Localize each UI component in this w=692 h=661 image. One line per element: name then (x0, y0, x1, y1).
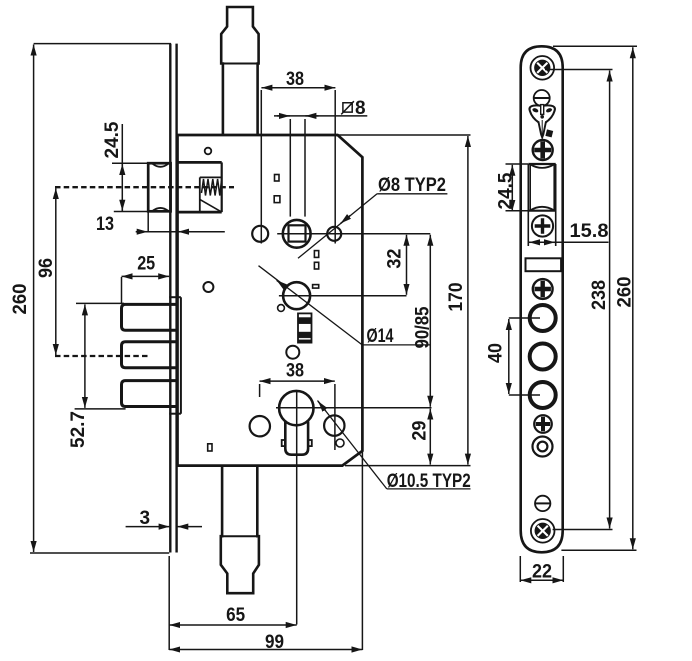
svg-text:260: 260 (10, 284, 31, 315)
faceplate slot rectangle (526, 258, 562, 271)
dashed centerline latch (55, 186, 234, 188)
extension line top of faceplate (34, 43, 171, 45)
label O14 leader arrow (277, 280, 287, 288)
dimension 38 bottom line (260, 380, 335, 382)
faceplate (left view, side) back line (175, 44, 177, 553)
extension line cutout bottom (506, 210, 529, 212)
cam circle O14 (283, 282, 310, 309)
svg-text:32: 32 (385, 249, 406, 269)
deadbolt bolt 1 (122, 304, 178, 330)
dimension 170 line (467, 136, 469, 465)
cam centerline (279, 295, 407, 297)
hole pin rect b (274, 196, 280, 203)
faceplate front outline (521, 46, 563, 552)
svg-text:90/85: 90/85 (413, 306, 434, 348)
rivet circle middle (203, 282, 213, 292)
dimension 15.8 line (528, 241, 609, 243)
extension line plate top (553, 45, 637, 47)
label O10.5 underline (387, 488, 471, 490)
latch front top arc (530, 164, 554, 168)
dimension 24.5 (left) arrow up (121, 164, 123, 175)
dimension 96 line (55, 188, 57, 355)
maker key logo wing blob right (545, 107, 552, 113)
dimension 22 line (520, 579, 563, 581)
dimension 22 ext left (519, 556, 521, 582)
svg-text:38: 38 (286, 361, 304, 382)
extension line bolt1 top (76, 302, 124, 304)
handle shaft lower (221, 466, 259, 594)
bore hole 3 (530, 382, 556, 408)
small circle below stack (286, 346, 299, 359)
extension line hole right col (334, 90, 336, 244)
extension line bolt face (121, 277, 123, 303)
latch head top bevel arc (153, 164, 169, 167)
latch head (148, 163, 170, 211)
svg-text:29: 29 (410, 421, 431, 441)
pin stack band 2 (298, 332, 311, 338)
label O14 leader (259, 266, 363, 345)
latch front left side (529, 164, 531, 211)
hole pin rect d (314, 262, 318, 269)
svg-text:52.7: 52.7 (68, 411, 89, 448)
svg-text:3: 3 (140, 508, 151, 529)
pin stack band 3 (298, 340, 311, 343)
svg-text:260: 260 (615, 277, 636, 308)
extension line latch face (147, 212, 149, 232)
cylinder neck tab right (308, 440, 312, 446)
extension line square right (304, 119, 306, 217)
svg-text:Ø8 TYP2: Ø8 TYP2 (378, 175, 446, 196)
deadbolt carrier bottom (169, 413, 181, 415)
dimension 24.5 right line (511, 165, 513, 211)
latch cutout top edge (528, 163, 555, 165)
bore hole 2 (530, 344, 556, 370)
handle shaft lower block top edge (221, 535, 259, 537)
maker key logo center bar (541, 105, 544, 115)
deadbolt carrier edge (180, 297, 182, 414)
deadbolt bolt 3 (122, 381, 178, 407)
latch screw (532, 215, 553, 236)
latch cutout left edge (527, 164, 529, 246)
dimension 15.8 arrow left (529, 241, 541, 243)
svg-text:Ø14: Ø14 (367, 326, 394, 347)
extension line hole left col (260, 90, 262, 244)
latch head bottom bevel arc (153, 208, 169, 211)
dimension 260 right line (632, 47, 634, 549)
dim 40 connector top (509, 317, 540, 319)
hole pin rect c (314, 251, 318, 258)
dimension 22 ext right (562, 556, 564, 582)
svg-text:38: 38 (286, 69, 304, 90)
svg-text:65: 65 (226, 605, 245, 626)
maker key logo dot (540, 115, 544, 119)
label O14 underline (362, 344, 430, 346)
label O8 leader (298, 194, 377, 258)
dimension 13 line (136, 231, 225, 233)
dimension 99 line (169, 649, 362, 651)
pin stack band 1 (298, 318, 311, 324)
hole right of follower (327, 227, 341, 241)
dimension 13 arrow left (178, 231, 190, 233)
extension line bottom of faceplate (30, 552, 169, 554)
spindle shaft upper (221, 7, 258, 135)
dimension 238 line (609, 71, 611, 529)
dimension 52.7 line (84, 304, 86, 408)
svg-text:96: 96 (36, 258, 57, 278)
extension line bottom screw center (553, 529, 613, 531)
spindle shaft upper block bottom edge (221, 63, 258, 65)
small circle below right hole (336, 439, 344, 447)
dashed centerline deadbolt (55, 355, 148, 357)
extension line plate bottom (561, 549, 636, 551)
spindle follower square (289, 225, 306, 241)
bore hole 1 (530, 305, 556, 331)
phillips screw lower (534, 415, 552, 433)
fixing hole left O10.5 (250, 416, 270, 436)
extension line top screw center (545, 69, 613, 71)
bottom countersunk screw head (535, 523, 550, 538)
dimension 3 left arrow (126, 526, 170, 528)
latch body right edge (221, 162, 223, 212)
faceplate (left view, side) front line (169, 44, 171, 553)
deadbolt carrier top (169, 296, 181, 298)
svg-text:170: 170 (446, 283, 467, 312)
maker key logo wing right outline (544, 105, 555, 122)
small circle left of stack (278, 305, 285, 312)
label O8 leader arrow (341, 215, 351, 223)
dimension 15.8 arrow right (543, 241, 555, 243)
dimension 24.5 (left) arrow down (121, 199, 123, 211)
svg-text:24.5: 24.5 (102, 121, 123, 158)
lock case outline (178, 135, 363, 466)
cylinder neck tab left (282, 440, 286, 446)
dimension 90/85 line (429, 235, 431, 407)
extension line latch top (112, 162, 149, 164)
latch cutout bottom edge (528, 210, 555, 212)
cylinder hole circle (279, 391, 313, 425)
svg-text:22: 22 (532, 562, 552, 583)
top countersunk screw cross (537, 63, 547, 73)
svg-text:15.8: 15.8 (570, 221, 609, 242)
svg-text:25: 25 (137, 254, 155, 275)
latch body bottom edge (178, 211, 222, 214)
latch spring coil (202, 179, 222, 196)
top countersunk screw head (535, 60, 550, 75)
dimension 25 line (122, 275, 170, 277)
maker key logo stem line (541, 120, 543, 135)
label O10.5 leader (318, 401, 387, 489)
dimension square8 arrow right (305, 115, 318, 117)
dimension 65 line (169, 624, 297, 626)
bottom countersunk screw outer (531, 519, 555, 543)
maker key logo square (545, 129, 553, 137)
spindle follower circle (283, 220, 311, 248)
latch body diagonal (200, 199, 222, 212)
dim 40 connector bottom (509, 394, 540, 396)
hole pin rect a (275, 175, 280, 182)
svg-text:24.5: 24.5 (496, 172, 517, 209)
slot screw lower (535, 496, 550, 511)
latch spring pocket wall (199, 177, 201, 212)
fixing hole right O10.5 (324, 415, 344, 435)
label O10.5 leader arrow (318, 401, 326, 411)
maker key logo body (538, 122, 546, 138)
svg-text:99: 99 (265, 632, 284, 653)
extension line latch bottom (114, 211, 150, 213)
svg-text:238: 238 (589, 280, 610, 310)
rivet circle upper (205, 148, 212, 155)
phillips screw middle (533, 279, 553, 299)
svg-text:8: 8 (355, 98, 366, 119)
label O8 TYP2 underline (377, 193, 447, 195)
slot screw upper (534, 90, 550, 106)
follower row centerline (277, 233, 430, 235)
bottom countersunk screw cross (538, 526, 548, 536)
extension line case right col (361, 452, 363, 650)
latch spring pocket top (200, 176, 222, 178)
top countersunk screw outer (531, 56, 555, 80)
extension line bolt3 bottom (75, 408, 126, 410)
cylinder vertical centerline (296, 391, 298, 625)
ring hole (533, 437, 553, 457)
dimension 3 right arrow (177, 526, 202, 528)
dimension 38 top line (261, 87, 335, 89)
maker key logo wing left outline (530, 105, 541, 122)
dimension 260 (left) line (33, 45, 35, 553)
latch front bottom arc (530, 207, 554, 211)
dimension square8 line (274, 115, 367, 117)
svg-text:40: 40 (486, 343, 507, 363)
hole left of follower (252, 226, 268, 242)
hole pin rect e (313, 285, 319, 289)
hole pin rect f (208, 444, 212, 451)
extension line square left (289, 119, 291, 217)
dimension square8 arrow left (277, 115, 290, 117)
maker key logo wing blob left (532, 107, 539, 113)
svg-text:13: 13 (96, 214, 114, 235)
deadbolt bolt 2 (122, 342, 178, 368)
dimension 29 line (429, 409, 431, 465)
case bottom extension line (345, 465, 471, 467)
latch body top edge (178, 161, 222, 164)
extension line faceplate bottom col (168, 556, 170, 650)
case top extension line (338, 134, 471, 136)
pin stack outline (298, 313, 312, 342)
extension line left hole bottom (259, 384, 261, 397)
dimension 40 line (508, 319, 510, 394)
latch cutout right edge (555, 164, 557, 246)
dimension 13 arrow right (136, 231, 148, 233)
cylinder hole neck (285, 422, 308, 455)
phillips screw upper (533, 140, 553, 160)
extension line right hole bottom (334, 384, 336, 450)
extension line cutout top (506, 163, 529, 165)
dimension 32 line (406, 235, 408, 295)
cylinder horizontal centerline (276, 407, 432, 409)
dimension 24.5 (left) line (121, 124, 123, 212)
latch front right side (553, 164, 555, 211)
square8 symbol (341, 101, 354, 114)
